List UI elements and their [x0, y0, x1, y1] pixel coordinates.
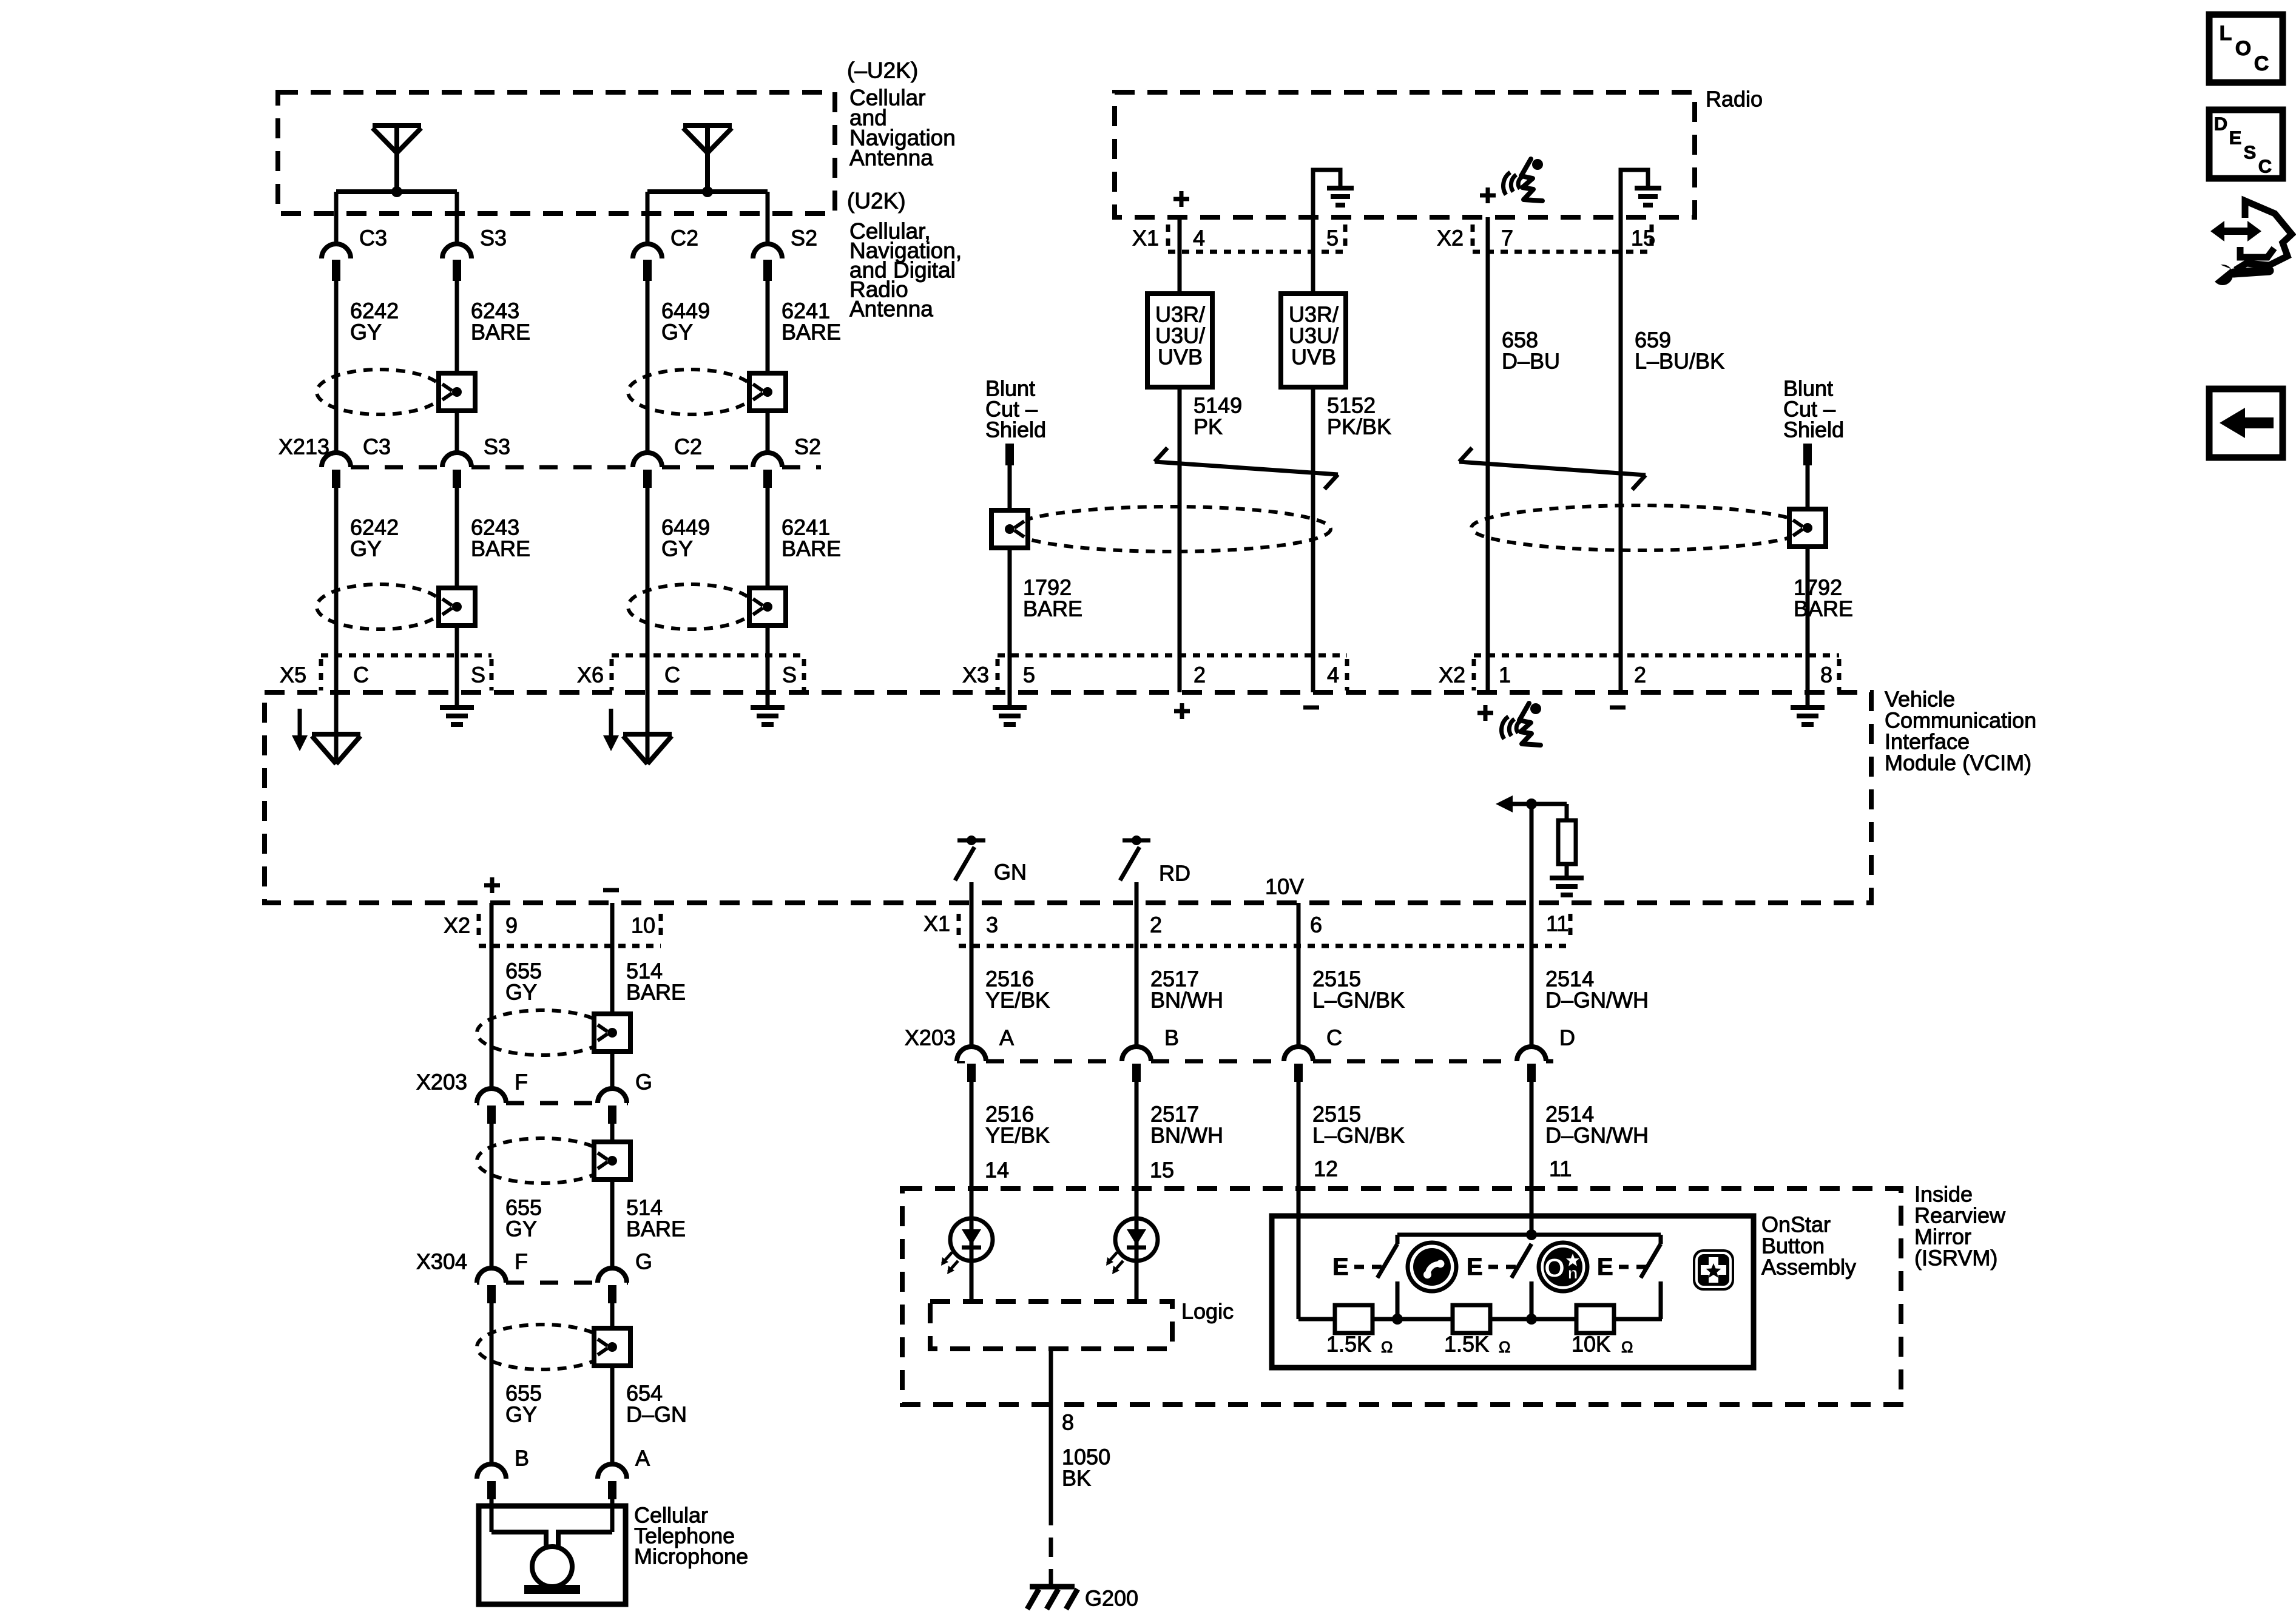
svg-text:14: 14 — [985, 1158, 1009, 1183]
svg-text:BARE: BARE — [626, 980, 686, 1005]
switch top bus — [1397, 1233, 1661, 1237]
wire X2-8 ground lead — [1806, 692, 1810, 707]
node D junction dot — [1526, 798, 1537, 809]
svg-text:BARE: BARE — [1794, 596, 1853, 621]
svg-text:S3: S3 — [484, 434, 510, 459]
svg-text:12: 12 — [1314, 1156, 1338, 1181]
wire X5-S ground lead — [455, 692, 459, 707]
wire pin2 down — [1135, 903, 1139, 1047]
wire 6242 GY lower segment — [334, 488, 339, 692]
svg-text:5: 5 — [1023, 663, 1035, 687]
connector pin S2 (upper) — [753, 244, 782, 258]
internal resistor ground lead — [1565, 864, 1569, 878]
ground under X5-S — [440, 705, 474, 710]
svg-text:X304: X304 — [416, 1249, 467, 1274]
connector row X5 dotted outline — [321, 653, 491, 658]
shield symbol blunt-cut left — [1011, 507, 1331, 552]
svg-text:Shield: Shield — [1783, 417, 1844, 442]
svg-text:S: S — [782, 663, 797, 687]
svg-text:Radio: Radio — [1706, 87, 1763, 112]
emergency cross button icon — [1693, 1249, 1734, 1291]
svg-text:X2: X2 — [1437, 226, 1464, 251]
svg-text:C3: C3 — [363, 434, 391, 459]
svg-text:GY: GY — [350, 536, 382, 561]
wire pin12 inside box — [1297, 1216, 1301, 1319]
connector X213 pin S3 — [442, 453, 471, 467]
wire X5-C into VCIM — [334, 692, 339, 763]
switch contact stub 2 — [1530, 1281, 1534, 1319]
switch contact stub 3 — [1659, 1281, 1663, 1319]
svg-text:C: C — [1326, 1025, 1342, 1050]
wire X2-9 through row — [490, 903, 494, 948]
wire X6-C into VCIM — [646, 692, 650, 763]
svg-text:B: B — [515, 1446, 529, 1471]
antenna symbol 2 — [683, 123, 732, 128]
svg-text:S3: S3 — [480, 226, 507, 251]
svg-text:G200: G200 — [1085, 1586, 1138, 1611]
svg-text:Assembly: Assembly — [1761, 1255, 1856, 1280]
connector X203 abcd row dashed line — [957, 1059, 965, 1064]
wire pin11 inside box — [1530, 1216, 1534, 1235]
antenna input symbol X5 — [298, 709, 302, 735]
antenna input symbol X6 — [609, 709, 613, 735]
svg-text:Logic: Logic — [1181, 1299, 1234, 1324]
connector row X1 radio dotted outline — [1166, 224, 1170, 250]
svg-text:5: 5 — [1326, 226, 1339, 251]
svg-text:C: C — [2254, 52, 2269, 75]
shield symbol mic 3 — [477, 1325, 608, 1369]
svg-text:X3: X3 — [962, 663, 989, 687]
icon back arrow box — [2209, 389, 2283, 457]
wire LED1 to logic — [970, 1261, 974, 1301]
svg-text:BARE: BARE — [626, 1217, 686, 1241]
svg-text:1.5K: 1.5K — [1326, 1332, 1371, 1357]
svg-text:X1: X1 — [1132, 226, 1159, 251]
wire X6-S ground lead — [766, 692, 770, 707]
svg-text:C: C — [664, 663, 680, 687]
connector X203 pin D — [1517, 1047, 1546, 1061]
svg-text:BARE: BARE — [782, 320, 841, 345]
wire antenna2 bus — [647, 189, 768, 194]
wire 6243 BARE lower segment — [455, 488, 459, 692]
svg-text:B: B — [1164, 1025, 1179, 1050]
connector row X2 9/10 dotted outline — [477, 914, 481, 942]
svg-text:BN/WH: BN/WH — [1150, 988, 1223, 1013]
svg-text:BARE: BARE — [1023, 596, 1082, 621]
svg-text:Shield: Shield — [985, 417, 1046, 442]
switch blade 3 — [1659, 1235, 1663, 1244]
svg-text:D–GN/WH: D–GN/WH — [1545, 1123, 1649, 1148]
svg-text:GY: GY — [661, 320, 693, 345]
internal resistor — [1558, 820, 1576, 864]
svg-text:7: 7 — [1501, 226, 1513, 251]
svg-text:S: S — [471, 663, 485, 687]
wire pin11 down — [1530, 903, 1534, 1047]
connector row X6 dotted outline — [612, 653, 804, 658]
connector X203 pin C — [1284, 1047, 1313, 1061]
ground under X3-5 — [993, 705, 1027, 710]
connector X304 pin F — [477, 1268, 506, 1283]
wire C to ISRVM — [1297, 1082, 1301, 1319]
Radio dashed box — [1115, 92, 1695, 217]
svg-text:PK: PK — [1194, 414, 1223, 439]
shield symbol upper-left (C3/S3 pair) — [317, 370, 443, 414]
svg-text:4: 4 — [1327, 663, 1339, 687]
wire antenna drop C2 — [646, 192, 650, 244]
arrowhead left at node D — [1496, 795, 1513, 812]
chassis ground at radio pin 15 — [1621, 170, 1648, 217]
wire A into mic box — [610, 1499, 615, 1532]
wire 655 GY seg1 — [490, 946, 494, 1089]
option box U3R/U3U/UVB right — [1281, 294, 1346, 387]
svg-text:PK/BK: PK/BK — [1327, 414, 1391, 439]
svg-text:E: E — [1332, 1254, 1349, 1280]
wire 6241 BARE lower segment — [766, 488, 770, 692]
svg-text:A: A — [999, 1025, 1014, 1050]
junction dot bus 1 — [1392, 1314, 1403, 1325]
ground G200 — [1030, 1584, 1075, 1590]
svg-text:GY: GY — [505, 1402, 537, 1427]
twisted pair marker right (658/659) — [1459, 462, 1646, 475]
wire RD switch down — [1135, 882, 1139, 903]
minus above X2-10 — [603, 888, 619, 893]
svg-text:4: 4 — [1193, 226, 1205, 251]
connector X203 pin G — [598, 1089, 627, 1103]
svg-text:9: 9 — [505, 913, 518, 938]
svg-text:O: O — [1544, 1254, 1565, 1283]
wire 655 GY seg2 — [490, 1124, 494, 1268]
svg-text:X1: X1 — [923, 911, 950, 936]
wire antenna drop S2 — [766, 192, 770, 244]
svg-text:G: G — [635, 1070, 652, 1095]
svg-text:A: A — [635, 1446, 650, 1471]
svg-text:Antenna: Antenna — [849, 146, 933, 170]
chassis ground at radio pin 5 — [1313, 170, 1340, 217]
wire X3-5 ground lead — [1008, 692, 1012, 707]
wire D to ISRVM — [1530, 1082, 1534, 1235]
LED indicator 1 — [950, 1218, 993, 1261]
wire B into mic box — [490, 1499, 494, 1532]
svg-text:S2: S2 — [794, 434, 821, 459]
svg-text:3: 3 — [986, 913, 998, 937]
dashed wire 1050 BK — [1049, 1506, 1053, 1585]
svg-text:6: 6 — [1310, 913, 1322, 937]
svg-text:BARE: BARE — [782, 536, 841, 561]
svg-text:11: 11 — [1549, 1156, 1572, 1181]
svg-text:C: C — [353, 663, 369, 687]
svg-text:GY: GY — [350, 320, 382, 345]
svg-text:S: S — [2244, 142, 2257, 163]
svg-text:G: G — [635, 1249, 652, 1274]
svg-text:10: 10 — [631, 913, 655, 938]
connector mic pin B — [477, 1464, 506, 1479]
plus sign at radio pin 7 — [1480, 194, 1496, 198]
svg-text:D–BU: D–BU — [1502, 349, 1560, 374]
shield symbol blunt-cut right — [1471, 505, 1806, 550]
plus above X2-9 — [484, 883, 500, 888]
resistor 10K — [1576, 1305, 1614, 1333]
svg-text:F: F — [515, 1070, 528, 1095]
switch GN — [957, 839, 985, 843]
svg-text:D–GN: D–GN — [626, 1402, 687, 1427]
mic icon at radio pin 7 — [1504, 159, 1543, 201]
wire to internal resistor — [1565, 804, 1569, 820]
wire pin6 down (10V) — [1297, 903, 1301, 1047]
svg-text:8: 8 — [1820, 663, 1832, 687]
connector X203 pin F — [477, 1089, 506, 1103]
blunt cut shield wire left — [1005, 444, 1014, 465]
Logic dashed box — [930, 1301, 1172, 1349]
wire pin3 down — [970, 903, 974, 1047]
svg-text:C3: C3 — [359, 226, 387, 251]
svg-text:YE/BK: YE/BK — [985, 1123, 1050, 1148]
wire 654 D-GN seg3 — [610, 1303, 615, 1464]
svg-text:X2: X2 — [444, 913, 470, 938]
svg-text:8: 8 — [1062, 1410, 1074, 1435]
VCIM dashed box — [265, 692, 1871, 903]
minus under X3-4 — [1303, 706, 1319, 710]
svg-text:E: E — [2229, 127, 2242, 149]
connector X203 F/G row — [477, 1101, 479, 1106]
blunt cut shield wire right — [1803, 444, 1812, 465]
connector X203 pin A — [957, 1047, 986, 1061]
svg-text:S2: S2 — [791, 226, 817, 251]
svg-text:(–U2K): (–U2K) — [847, 58, 918, 83]
svg-text:X5: X5 — [280, 663, 306, 687]
svg-text:15: 15 — [1150, 1158, 1174, 1183]
shield symbol lower-right (C2/S2 pair) — [628, 584, 754, 629]
antenna assembly dashed box (Cellular and Navigation Antenna) — [278, 92, 835, 214]
svg-text:BN/WH: BN/WH — [1150, 1123, 1223, 1148]
svg-text:O: O — [2235, 37, 2251, 60]
wire 6449 GY upper segment — [646, 281, 650, 453]
svg-text:11: 11 — [1546, 911, 1568, 936]
wire 6449 GY lower segment — [646, 488, 650, 692]
svg-text:15: 15 — [1631, 226, 1655, 251]
ground under X2-8 — [1791, 705, 1825, 710]
connector X203 pin B — [1122, 1047, 1151, 1061]
svg-text:C2: C2 — [670, 226, 698, 251]
svg-text:Microphone: Microphone — [634, 1544, 748, 1569]
shield symbol mic 1 — [477, 1010, 608, 1055]
svg-text:BARE: BARE — [471, 536, 530, 561]
svg-text:D–GN/WH: D–GN/WH — [1545, 988, 1649, 1013]
svg-text:1: 1 — [1499, 663, 1511, 687]
connector row X3 dotted outline — [998, 653, 1347, 658]
svg-text:X203: X203 — [905, 1025, 956, 1050]
svg-text:L–GN/BK: L–GN/BK — [1312, 1123, 1405, 1148]
resistor 1.5K second — [1453, 1305, 1490, 1333]
twisted pair marker left (5149/5152) — [1155, 462, 1338, 474]
svg-text:10V: 10V — [1265, 874, 1304, 899]
antenna symbol 1 — [373, 123, 421, 128]
svg-text:GY: GY — [505, 980, 537, 1005]
connector X304 F/G row — [477, 1281, 479, 1285]
connector row X2 radio dotted outline — [1471, 224, 1475, 250]
wire 5152 PK/BK — [1311, 387, 1315, 692]
svg-text:BARE: BARE — [471, 320, 530, 345]
wire 514 BARE seg1 — [610, 946, 615, 1089]
wire GN switch down — [970, 882, 974, 903]
connector X213 row dashed line — [320, 465, 324, 470]
plus under X3-2 — [1174, 709, 1190, 714]
LED indicator 2 — [1115, 1218, 1158, 1261]
svg-text:X203: X203 — [416, 1070, 467, 1095]
svg-text:UVB: UVB — [1291, 345, 1336, 370]
resistor bus wire — [1298, 1317, 1335, 1322]
wire 655 GY seg3 — [490, 1303, 494, 1464]
svg-text:n: n — [1567, 1264, 1578, 1283]
connector X213 pin C3 — [322, 453, 351, 467]
wire LED2 to logic — [1135, 1261, 1139, 1301]
connector X304 pin G — [598, 1268, 627, 1283]
connector mic pin A — [598, 1464, 627, 1479]
svg-text:GY: GY — [505, 1217, 537, 1241]
ISRVM dashed box — [902, 1189, 1901, 1405]
plus under X2-1 — [1477, 711, 1493, 715]
minus under X2-2 — [1610, 706, 1626, 710]
svg-text:UVB: UVB — [1158, 345, 1203, 370]
phone button icon — [1408, 1243, 1456, 1291]
svg-text:(U2K): (U2K) — [847, 189, 906, 214]
junction dot bus 2 — [1526, 1314, 1537, 1325]
icon DESC box — [2209, 110, 2283, 178]
wire 658 D-BU — [1486, 217, 1490, 692]
svg-text:BK: BK — [1062, 1466, 1091, 1491]
wire 6242 GY upper segment — [334, 281, 339, 453]
svg-text:X2: X2 — [1439, 663, 1465, 687]
svg-text:X6: X6 — [577, 663, 604, 687]
switch blade 2 — [1511, 1244, 1531, 1278]
icon data-link arrow and wrench — [2210, 221, 2261, 241]
svg-text:(ISRVM): (ISRVM) — [1914, 1246, 1997, 1271]
wire B to ISRVM — [1135, 1082, 1139, 1218]
wire 8 from logic box — [1049, 1349, 1053, 1506]
resistor 1.5K first — [1335, 1305, 1373, 1333]
svg-text:RD: RD — [1159, 861, 1190, 886]
switch contact stub 1 — [1396, 1281, 1400, 1319]
wire node D down — [1530, 804, 1534, 903]
svg-text:2: 2 — [1150, 913, 1162, 937]
option box U3R/U3U/UVB left — [1147, 294, 1212, 387]
wire antenna drop C3 — [334, 192, 339, 244]
ground under X6-S — [751, 705, 785, 710]
wire radio pin4 to U3R box — [1178, 217, 1182, 294]
connector pin S3 (upper) — [442, 244, 471, 258]
connector pin C3 (upper) — [322, 244, 351, 258]
connector X213 pin C2 — [633, 453, 662, 467]
svg-text:YE/BK: YE/BK — [985, 988, 1050, 1013]
svg-text:10K: 10K — [1572, 1332, 1610, 1357]
OnStar button icon — [1539, 1243, 1587, 1291]
svg-text:Module (VCIM): Module (VCIM) — [1885, 751, 2031, 775]
svg-text:Ω: Ω — [1621, 1338, 1633, 1356]
svg-text:F: F — [515, 1249, 528, 1274]
wire 6243 BARE upper segment — [455, 281, 459, 453]
svg-text:X213: X213 — [279, 434, 329, 459]
connector row X2 vcim dotted outline — [1474, 653, 1839, 658]
svg-text:2: 2 — [1634, 663, 1646, 687]
switch blade 1 — [1396, 1235, 1400, 1244]
svg-text:GN: GN — [994, 860, 1027, 885]
wire radio pin5 to U3R box — [1311, 217, 1315, 294]
wire 5149 PK — [1178, 387, 1182, 692]
ground under internal resistor — [1550, 876, 1584, 880]
svg-text:C2: C2 — [674, 434, 702, 459]
wire A to ISRVM — [970, 1082, 974, 1218]
plus sign at radio pin 4 — [1173, 197, 1189, 201]
svg-text:E: E — [1597, 1254, 1613, 1280]
svg-text:Ω: Ω — [1499, 1338, 1510, 1356]
svg-text:L: L — [2220, 22, 2232, 45]
shield symbol mic 2 — [477, 1138, 608, 1183]
svg-text:D: D — [1559, 1025, 1575, 1050]
shield symbol upper-right (C2/S2 pair) — [628, 370, 754, 414]
connector X213 pin S2 — [753, 453, 782, 467]
connector row X1 vcim dotted outline — [957, 914, 961, 942]
switch RD — [1123, 839, 1150, 843]
shield symbol lower-left (C3/S3 pair) — [317, 584, 443, 629]
mic icon under X2-1 — [1502, 703, 1541, 745]
svg-text:C: C — [2258, 156, 2272, 177]
svg-text:1.5K: 1.5K — [1444, 1332, 1489, 1357]
wire 514 BARE seg2 — [610, 1124, 615, 1268]
OnStar button assembly box — [1272, 1216, 1754, 1368]
connector pin C2 (upper) — [633, 244, 662, 258]
wire X2-10 through row — [610, 903, 615, 948]
wire 6241 BARE upper segment — [766, 281, 770, 453]
wire antenna drop S3 — [455, 192, 459, 244]
svg-text:GY: GY — [661, 536, 693, 561]
wire 659 L-BU/BK — [1619, 217, 1623, 692]
svg-text:Antenna: Antenna — [849, 297, 933, 322]
svg-text:E: E — [1467, 1254, 1483, 1280]
wire antenna1 bus — [336, 189, 457, 194]
junction dot pin11 bus — [1526, 1229, 1537, 1240]
icon LOC box — [2209, 15, 2283, 83]
svg-text:Ω: Ω — [1381, 1338, 1393, 1356]
svg-text:2: 2 — [1194, 663, 1206, 687]
svg-text:L–GN/BK: L–GN/BK — [1312, 988, 1405, 1013]
cellular telephone microphone box — [479, 1506, 626, 1604]
svg-text:L–BU/BK: L–BU/BK — [1635, 349, 1724, 374]
svg-text:D: D — [2214, 113, 2227, 135]
